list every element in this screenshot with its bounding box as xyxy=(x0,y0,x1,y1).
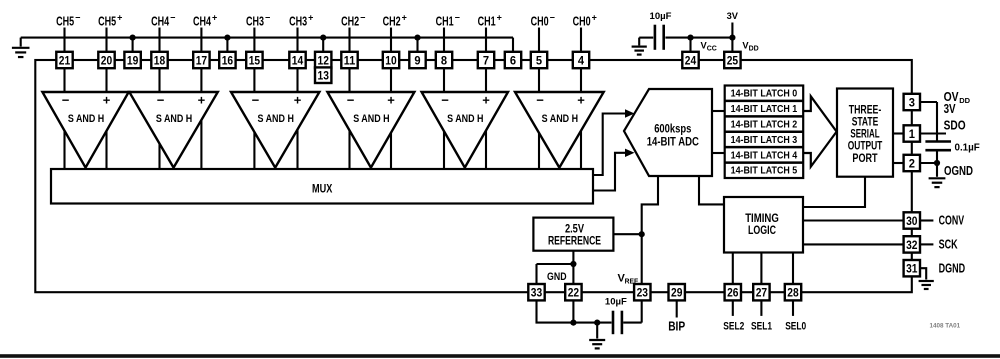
svg-text:DD: DD xyxy=(959,96,970,105)
svg-text:1: 1 xyxy=(909,127,915,141)
pin 32 xyxy=(904,236,920,252)
wire S/H 1 to MUX (a) xyxy=(63,130,65,170)
wire ADC to latches (lower) xyxy=(712,152,726,154)
wire pin to S/H 1 + input xyxy=(105,67,107,93)
svg-text:8: 8 xyxy=(441,53,447,67)
svg-text:−: − xyxy=(75,12,80,22)
pin 22 xyxy=(565,284,581,300)
wire S/H 4 to MUX (a) xyxy=(348,129,350,170)
svg-text:10µF: 10µF xyxy=(605,297,627,307)
wire pin to S/H 3 + input xyxy=(296,67,298,93)
node CH3− xyxy=(246,12,270,28)
wire CH0− to pin 5 xyxy=(538,28,540,53)
svg-text:SEL0: SEL0 xyxy=(785,320,806,332)
svg-text:CC: CC xyxy=(707,45,717,52)
pin 17 xyxy=(193,52,209,68)
svg-text:14-BIT ADC: 14-BIT ADC xyxy=(647,134,700,148)
wire pin 26 to SEL2 xyxy=(732,299,734,316)
wire timing to pin 28 xyxy=(792,253,794,286)
wire pin 28 to SEL0 xyxy=(792,299,794,316)
label OGND xyxy=(944,164,973,178)
wire CH5− to pin 21 xyxy=(63,28,65,53)
label VDD xyxy=(742,41,758,53)
svg-text:16: 16 xyxy=(222,53,234,67)
pin 14 xyxy=(289,52,305,68)
svg-text:26: 26 xyxy=(727,286,739,300)
svg-text:BIP: BIP xyxy=(668,319,685,333)
block TIMING LOGIC xyxy=(724,197,803,253)
wire port to pin 2 xyxy=(893,162,905,164)
svg-text:−: − xyxy=(170,12,175,22)
svg-text:MUX: MUX xyxy=(312,183,333,195)
wire pin to S/H 4 − input xyxy=(348,67,350,93)
bottom rule xyxy=(0,354,1000,358)
svg-text:27: 27 xyxy=(756,286,768,300)
wire CH1− to pin 8 xyxy=(443,28,445,53)
svg-text:30: 30 xyxy=(906,214,918,228)
wire pin 3 to OVDD xyxy=(919,101,937,103)
node CH5+ xyxy=(98,12,122,28)
wire ADC to VREF node xyxy=(642,176,658,234)
wire CH0+ to pin 4 xyxy=(580,28,582,53)
label VCC xyxy=(701,41,717,53)
svg-text:14-BIT LATCH 1: 14-BIT LATCH 1 xyxy=(731,104,798,115)
wire pin to S/H 5 − input xyxy=(443,67,445,93)
op-amp S/H 1 (S AND H) xyxy=(42,92,128,168)
wire S/H 3 to MUX (a) xyxy=(253,131,255,170)
wire S/H 6 to MUX (a) xyxy=(538,132,540,170)
pin 4 xyxy=(573,52,589,68)
svg-text:CH5: CH5 xyxy=(56,14,74,28)
wire pin to S/H 6 − input xyxy=(538,67,540,93)
svg-text:S AND H: S AND H xyxy=(258,113,295,125)
wire rail to pin 12 (node COM3) xyxy=(320,35,326,53)
node VCC junction xyxy=(687,35,693,53)
svg-text:DD: DD xyxy=(749,45,759,52)
svg-text:15: 15 xyxy=(249,53,261,67)
svg-text:S AND H: S AND H xyxy=(542,113,579,125)
svg-text:14-BIT LATCH 0: 14-BIT LATCH 0 xyxy=(731,89,798,100)
wire S/H 6 to MUX (b) xyxy=(580,130,582,170)
svg-text:CH3: CH3 xyxy=(289,14,307,28)
node CH1− xyxy=(436,12,460,28)
svg-text:14-BIT LATCH 5: 14-BIT LATCH 5 xyxy=(731,166,798,177)
svg-text:REFERENCE: REFERENCE xyxy=(548,235,601,248)
pin 15 xyxy=(246,52,262,68)
block 2.5V REFERENCE xyxy=(533,218,613,251)
svg-text:SERIAL: SERIAL xyxy=(850,129,879,141)
svg-text:+: + xyxy=(592,12,597,22)
node CH5− xyxy=(56,12,80,28)
label BIP xyxy=(668,319,685,333)
svg-text:31: 31 xyxy=(906,262,918,276)
label SDO xyxy=(944,118,966,132)
svg-text:22: 22 xyxy=(568,286,580,300)
wire CH3+ to pin 14 xyxy=(296,28,298,53)
wire pin to S/H 6 + input xyxy=(580,67,582,93)
label SCK xyxy=(939,238,958,252)
wire pin to S/H 2 + input xyxy=(200,67,202,93)
svg-text:10µF: 10µF xyxy=(650,11,672,21)
data-bus arrow xyxy=(804,96,837,166)
wire pin 1 to SDO xyxy=(919,132,946,134)
wire CH4− to pin 18 xyxy=(158,28,160,53)
svg-text:32: 32 xyxy=(906,238,918,252)
pin 8 xyxy=(436,52,452,68)
svg-text:−: − xyxy=(441,92,449,107)
ground (supply bypass) xyxy=(632,38,647,55)
svg-text:3: 3 xyxy=(909,95,915,109)
wire pin to S/H 5 + input xyxy=(485,67,487,93)
svg-text:−: − xyxy=(62,92,70,107)
svg-text:LOGIC: LOGIC xyxy=(748,225,776,237)
svg-text:TIMING: TIMING xyxy=(745,213,779,225)
wire supply rail xyxy=(639,37,732,39)
svg-text:3V: 3V xyxy=(944,102,957,116)
svg-text:0.1µF: 0.1µF xyxy=(955,143,980,154)
wire timing to pin 32 xyxy=(803,243,905,245)
pin 2 xyxy=(904,155,920,171)
svg-text:S AND H: S AND H xyxy=(447,113,484,125)
svg-text:CH3: CH3 xyxy=(246,14,264,28)
ground rail (analog common) xyxy=(21,38,513,53)
wire reference to VREF node xyxy=(613,231,644,237)
svg-text:GND: GND xyxy=(547,271,567,283)
wire S/H 2 to MUX (b) xyxy=(200,119,202,170)
svg-text:14: 14 xyxy=(292,53,304,67)
wire S/H 4 to MUX (b) xyxy=(390,132,392,170)
label DGND xyxy=(939,261,966,275)
node 3V supply xyxy=(727,11,739,53)
pin 25 xyxy=(724,52,740,68)
svg-text:+: + xyxy=(497,12,502,22)
latch bank U2 (14-BIT LATCH 0-5) xyxy=(725,86,804,179)
label SEL2 xyxy=(723,320,744,332)
pin 1 xyxy=(904,125,920,141)
pin 19 xyxy=(124,52,140,68)
svg-text:−: − xyxy=(360,12,365,22)
svg-text:25: 25 xyxy=(727,53,739,67)
wire bypass to pin 23 xyxy=(623,299,642,322)
svg-text:−: − xyxy=(265,12,270,22)
svg-text:20: 20 xyxy=(101,53,113,67)
node CH2+ xyxy=(383,12,407,28)
svg-text:+: + xyxy=(103,92,111,107)
svg-text:CH0: CH0 xyxy=(531,14,549,28)
pin 12 xyxy=(315,52,331,68)
wire CH5+ to pin 20 xyxy=(105,28,107,53)
capacitor C3 0.1µF xyxy=(925,142,979,154)
svg-text:−: − xyxy=(536,92,544,107)
wire pin 29 to BIP xyxy=(676,299,678,317)
wire MUX to ADC (lower) xyxy=(592,149,635,191)
svg-text:CH0: CH0 xyxy=(573,14,591,28)
svg-text:1408 TA01: 1408 TA01 xyxy=(930,323,961,330)
label SEL1 xyxy=(751,320,772,332)
wire pin 31 to DGND xyxy=(919,268,926,279)
capacitor C2 10µF xyxy=(605,297,627,335)
wire CH2− to pin 11 xyxy=(348,28,350,53)
pin 18 xyxy=(151,52,167,68)
ground OGND xyxy=(929,163,946,187)
wire capacitor to pin 2 node xyxy=(934,150,940,166)
svg-text:PORT: PORT xyxy=(852,153,877,165)
ground xyxy=(12,38,30,57)
svg-text:THREE-: THREE- xyxy=(849,105,882,117)
svg-text:3V: 3V xyxy=(727,11,739,21)
wire timing to pin 26 xyxy=(732,253,734,286)
wire MUX to ADC (upper) xyxy=(592,109,635,175)
wire timing to pin 27 xyxy=(760,253,762,286)
wire pin 30 to CONV xyxy=(919,219,933,221)
pin 13 xyxy=(315,67,331,83)
svg-text:S AND H: S AND H xyxy=(156,113,193,125)
pin 5 xyxy=(531,52,547,68)
label SEL0 xyxy=(785,320,806,332)
pin 31 xyxy=(904,260,920,276)
svg-text:CH1: CH1 xyxy=(436,14,454,28)
svg-text:24: 24 xyxy=(685,53,697,67)
svg-text:+: + xyxy=(308,12,313,22)
svg-text:OGND: OGND xyxy=(944,164,973,178)
svg-text:+: + xyxy=(482,92,490,107)
svg-text:CH5: CH5 xyxy=(98,14,116,28)
wire S/H 2 to MUX (a) xyxy=(158,143,160,170)
wire rail to pin 19 (node COM1) xyxy=(130,35,136,53)
svg-text:33: 33 xyxy=(531,286,543,300)
wire pin 33 to bypass rail xyxy=(537,299,612,322)
pin 9 xyxy=(409,52,425,68)
pin 30 xyxy=(904,212,920,228)
MUX xyxy=(51,169,593,204)
svg-text:CH4: CH4 xyxy=(151,14,169,28)
pin 27 xyxy=(753,284,769,300)
pin 6 xyxy=(505,52,521,68)
svg-text:−: − xyxy=(347,92,355,107)
node CH0− xyxy=(531,12,555,28)
ADC U1 (600ksps 14-BIT ADC) xyxy=(624,89,712,176)
wire pin 2 to OGND node xyxy=(919,162,937,164)
wire OVDD to capacitor xyxy=(936,102,938,141)
svg-text:5: 5 xyxy=(536,53,542,67)
ground DGND xyxy=(919,281,934,289)
svg-text:S AND H: S AND H xyxy=(353,113,390,125)
svg-text:7: 7 xyxy=(483,53,489,67)
svg-text:S AND H: S AND H xyxy=(68,113,105,125)
svg-text:CH2: CH2 xyxy=(341,14,359,28)
svg-text:29: 29 xyxy=(671,286,683,300)
wire ADC to latches (upper) xyxy=(712,110,726,112)
wire ADC to timing logic xyxy=(699,176,724,204)
wire pin 27 to SEL1 xyxy=(760,299,762,316)
node CH2− xyxy=(341,12,365,28)
svg-text:CH1: CH1 xyxy=(478,14,496,28)
svg-text:DGND: DGND xyxy=(939,261,966,275)
op-amp S/H 6 (S AND H) xyxy=(515,92,604,168)
wire CH1+ to pin 7 xyxy=(485,28,487,53)
svg-text:10: 10 xyxy=(385,53,397,67)
wire S/H 3 to MUX (b) xyxy=(296,128,298,170)
svg-text:600ksps: 600ksps xyxy=(654,121,692,135)
wire pin 32 to SCK xyxy=(919,243,933,245)
wire pin to S/H 4 + input xyxy=(390,67,392,93)
wire pin to S/H 2 − input xyxy=(158,67,160,93)
svg-text:SEL2: SEL2 xyxy=(723,320,744,332)
svg-text:13: 13 xyxy=(318,68,330,82)
wire pin 22 to bypass rail xyxy=(570,299,576,325)
wire rail to pin 9 (node COM4) xyxy=(414,35,420,53)
pin 26 xyxy=(725,284,741,300)
wire timing to pin 30 xyxy=(803,219,905,221)
svg-text:18: 18 xyxy=(154,53,166,67)
pin 7 xyxy=(478,52,494,68)
svg-text:+: + xyxy=(117,12,122,22)
svg-text:CH4: CH4 xyxy=(193,14,211,28)
svg-text:+: + xyxy=(198,92,206,107)
svg-text:12: 12 xyxy=(318,53,330,67)
node CH0+ xyxy=(573,12,597,28)
svg-text:19: 19 xyxy=(127,53,139,67)
svg-text:CH2: CH2 xyxy=(383,14,401,28)
pin 10 xyxy=(383,52,399,68)
label OVDD 3V xyxy=(944,90,971,116)
wire CH3− to pin 15 xyxy=(253,28,255,53)
svg-text:+: + xyxy=(577,92,585,107)
svg-text:SDO: SDO xyxy=(944,118,966,132)
wire port to pin 1 xyxy=(893,132,905,134)
wire pin to S/H 3 − input xyxy=(253,67,255,93)
svg-text:SCK: SCK xyxy=(939,238,958,252)
svg-text:28: 28 xyxy=(787,286,799,300)
wire S/H 5 to MUX (b) xyxy=(485,130,487,171)
svg-text:+: + xyxy=(387,92,395,107)
op-amp S/H 2 (S AND H) xyxy=(129,92,218,168)
svg-text:14-BIT LATCH 2: 14-BIT LATCH 2 xyxy=(731,119,798,130)
block THREE-STATE SERIAL OUTPUT PORT xyxy=(837,89,893,177)
svg-text:+: + xyxy=(402,12,407,22)
pin 20 xyxy=(98,52,114,68)
svg-text:−: − xyxy=(455,12,460,22)
pin 11 xyxy=(341,52,357,68)
pin 3 xyxy=(904,94,920,110)
node CH4+ xyxy=(193,12,217,28)
wire S/H 5 to MUX (a) xyxy=(443,130,445,170)
svg-text:4: 4 xyxy=(578,53,584,67)
svg-text:−: − xyxy=(252,92,260,107)
node CH4− xyxy=(151,12,175,28)
wire CH4+ to pin 17 xyxy=(200,28,202,53)
wire VREF node to pin 23 xyxy=(641,234,643,285)
svg-text:OUTPUT: OUTPUT xyxy=(848,141,883,153)
pin 33 xyxy=(528,284,544,300)
svg-text:CONV: CONV xyxy=(939,214,965,228)
svg-text:−: − xyxy=(550,12,555,22)
svg-text:+: + xyxy=(294,92,302,107)
svg-text:21: 21 xyxy=(59,53,71,67)
pin 29 xyxy=(669,284,685,300)
op-amp S/H 3 (S AND H) xyxy=(231,92,319,168)
svg-text:6: 6 xyxy=(510,53,516,67)
pin 16 xyxy=(219,52,235,68)
svg-text:−: − xyxy=(157,92,165,107)
label VREF xyxy=(618,273,639,286)
svg-text:14-BIT LATCH 3: 14-BIT LATCH 3 xyxy=(731,135,798,146)
svg-text:23: 23 xyxy=(637,286,649,300)
op-amp S/H 5 (S AND H) xyxy=(422,92,508,168)
svg-text:2.5V: 2.5V xyxy=(565,223,584,236)
svg-text:9: 9 xyxy=(414,53,420,67)
node CH3+ xyxy=(289,12,313,28)
label CONV xyxy=(939,214,965,228)
label 1408 TA01 xyxy=(930,323,961,330)
svg-text:SEL1: SEL1 xyxy=(751,320,772,332)
wire pin to S/H 1 − input xyxy=(63,67,65,93)
capacitor C1 10µF xyxy=(650,11,672,50)
wire port to timing logic xyxy=(803,177,865,207)
wire rail to pin 16 (node COM2) xyxy=(224,35,230,53)
node CH1+ xyxy=(478,12,502,28)
svg-text:11: 11 xyxy=(344,53,356,67)
pin 23 xyxy=(634,284,650,300)
svg-text:17: 17 xyxy=(196,53,208,67)
pin 28 xyxy=(785,284,801,300)
svg-text:STATE: STATE xyxy=(852,117,879,129)
pin 21 xyxy=(56,52,72,68)
pin 24 xyxy=(682,52,698,68)
wire S/H 1 to MUX (b) xyxy=(105,130,107,170)
svg-text:14-BIT LATCH 4: 14-BIT LATCH 4 xyxy=(731,150,798,161)
op-amp S/H 4 (S AND H) xyxy=(327,92,414,168)
wire reference to GND pins xyxy=(537,251,577,285)
svg-text:+: + xyxy=(212,12,217,22)
label GND xyxy=(547,271,567,283)
IC boundary (pin frame) xyxy=(35,60,912,292)
wire CH2+ to pin 10 xyxy=(390,28,392,53)
ground (reference bypass) xyxy=(589,320,605,349)
svg-text:2: 2 xyxy=(909,156,915,170)
